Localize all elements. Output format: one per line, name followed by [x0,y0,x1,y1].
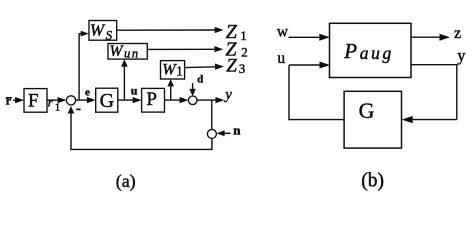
wire branch down to summing junction S3 [211,100,213,129]
label Z1 [226,21,247,43]
svg-text:1: 1 [176,64,183,79]
svg-text:z: z [454,25,461,42]
label z [454,25,461,42]
wire S2 to output y [197,97,224,103]
label u [131,84,138,98]
caption (a) [116,171,136,192]
block W_1 (weight) [161,61,185,79]
wire G to P (signal u) [118,97,142,103]
svg-text:P: P [343,39,357,63]
summing junction S3 (measurement noise) [207,129,216,138]
label w [277,24,289,41]
wire u into P_aug [289,62,330,69]
label Z2 [225,39,247,61]
wire d down into S2 [189,83,196,96]
summing junction S2 [188,96,197,105]
svg-text:r: r [48,95,53,109]
svg-text:G: G [100,90,114,112]
label y (b) [457,46,466,65]
svg-text:un: un [124,46,140,60]
wire W_1 to output Z3 [185,64,224,70]
block W_un (uncertainty weight) [108,43,147,60]
svg-text:(a): (a) [116,171,136,192]
block P_aug (augmented plant) [330,23,412,77]
svg-text:2: 2 [241,45,248,60]
svg-text:n: n [233,123,241,138]
label u (b) [277,50,285,67]
svg-text:u: u [131,84,138,98]
wire w into P_aug [289,34,330,41]
label y [223,87,232,103]
svg-text:aug: aug [360,43,394,63]
svg-text:3: 3 [239,61,246,76]
label d [197,73,203,85]
svg-text:y: y [223,87,232,103]
label r-bar (reference input) [6,94,12,108]
feedback wire from S3 back to S1 [68,106,213,149]
label e [85,86,90,98]
svg-text:1: 1 [55,101,61,113]
wire branch from u up to W_un [121,59,128,100]
svg-text:e: e [85,86,90,98]
label n with arrow into S3 [216,123,241,138]
wire P_aug to z [411,34,450,41]
summing junction S1 [66,96,75,105]
svg-text:y: y [457,46,466,65]
svg-text:W: W [162,61,177,78]
wire r-bar to F with arrowhead [13,97,24,103]
block G (controller) [96,88,118,112]
feedback wire from G to u [288,65,344,120]
svg-text:F: F [28,90,39,111]
block G (controller, b) [344,91,401,148]
wire P to summing junction S2 [165,97,189,103]
minus sign at S1 [76,108,80,110]
svg-text:P: P [146,89,157,110]
svg-text:G: G [359,98,375,123]
wire F to summing junction S1 [47,97,67,103]
block W_S (performance weight) [89,21,117,43]
svg-text:W: W [110,43,125,60]
svg-text:u: u [277,50,285,67]
svg-text:1: 1 [240,28,247,43]
wire into G right side [402,116,457,123]
svg-text:S: S [106,28,113,43]
wire W_un to output Z2 [147,46,223,52]
svg-text:w: w [277,24,289,41]
label Z3 [226,56,245,77]
wire P_aug to y and down [411,64,457,120]
block F (prefilter) [24,89,47,113]
svg-text:W: W [90,21,106,40]
svg-text:(b): (b) [361,170,384,191]
wire branch from P output up to W_1 [167,79,174,100]
caption (b) [361,170,384,191]
label r1 [48,95,61,113]
wire branch from e up to W_S [79,31,89,100]
svg-text:r: r [6,94,12,108]
wire S1 to G (signal e) [76,97,96,103]
wire W_S to output Z1 [117,27,224,33]
svg-text:Z: Z [226,56,237,77]
svg-text:d: d [197,73,203,85]
block P (plant) [142,88,165,112]
